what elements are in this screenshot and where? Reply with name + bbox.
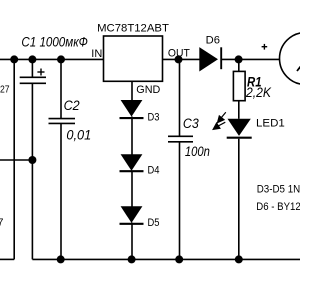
svg-text:27: 27 [0, 84, 10, 96]
svg-text:OUT: OUT [168, 48, 190, 60]
svg-text:100n: 100n [185, 144, 210, 159]
svg-text:IN: IN [91, 48, 102, 60]
svg-text:C3: C3 [183, 116, 199, 131]
svg-text:D5: D5 [148, 217, 160, 229]
svg-text:LED1: LED1 [256, 117, 285, 129]
svg-text:2,2K: 2,2K [245, 85, 272, 100]
svg-text:D3: D3 [148, 112, 160, 124]
svg-text:C1 1000мкФ: C1 1000мкФ [21, 35, 88, 50]
svg-text:D4: D4 [148, 165, 160, 177]
svg-text:D3-D5 1N4001: D3-D5 1N4001 [257, 184, 300, 196]
svg-text:D6: D6 [206, 35, 220, 47]
svg-text:0,01: 0,01 [66, 128, 91, 143]
svg-text:GND: GND [136, 84, 160, 96]
svg-text:C2: C2 [64, 98, 81, 113]
svg-text:D6 - BY127: D6 - BY127 [256, 201, 300, 213]
svg-text:MC78T12ABT: MC78T12ABT [97, 22, 169, 34]
svg-text:7: 7 [0, 217, 4, 229]
